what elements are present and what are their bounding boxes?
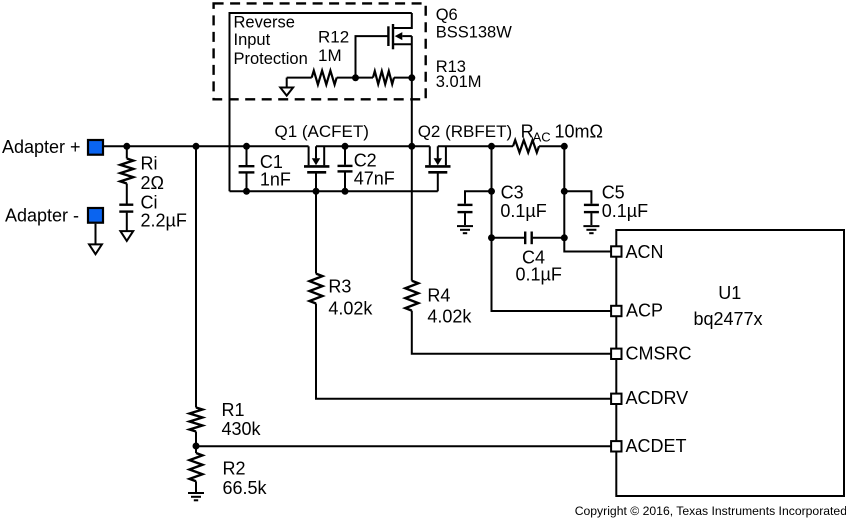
node rail-C2 <box>342 143 349 150</box>
svg-text:Q2 (RBFET): Q2 (RBFET) <box>418 122 512 141</box>
wire R4 to CMSRC pin <box>412 311 612 354</box>
transistor Q2 RBFET <box>425 146 450 191</box>
capacitor C2 <box>338 146 353 191</box>
svg-text:3.01M: 3.01M <box>436 73 482 91</box>
svg-text:66.5k: 66.5k <box>223 478 268 498</box>
svg-text:1M: 1M <box>318 46 342 65</box>
wire R2 to ground <box>195 481 197 492</box>
svg-text:0.1µF: 0.1µF <box>500 201 546 221</box>
svg-text:bq2477x: bq2477x <box>693 309 762 329</box>
wire CMSRC vertical <box>411 78 413 281</box>
capacitor C4 <box>492 232 565 245</box>
svg-text:C5: C5 <box>602 183 625 203</box>
svg-text:Adapter +: Adapter + <box>2 137 81 157</box>
svg-text:R3: R3 <box>328 277 351 297</box>
svg-text:0.1µF: 0.1µF <box>602 201 648 221</box>
Adapter- terminal <box>88 208 103 223</box>
svg-text:ACP: ACP <box>626 301 663 321</box>
wire ACDET <box>196 445 611 447</box>
capacitor C5 <box>564 191 599 225</box>
node R13-source <box>408 74 415 81</box>
node C2 bottom <box>342 188 349 195</box>
svg-text:10mΩ: 10mΩ <box>555 121 603 141</box>
resistor R3 <box>310 274 323 304</box>
wire Q6 gate lead <box>356 36 389 78</box>
svg-text:R4: R4 <box>427 285 450 305</box>
node ACP-C4 <box>488 234 495 241</box>
node rail-C1 <box>243 143 250 150</box>
capacitor Ci <box>119 205 133 231</box>
Adapter+ terminal <box>88 140 103 155</box>
resistor R13 <box>373 71 394 84</box>
svg-text:Q1 (ACFET): Q1 (ACFET) <box>275 122 369 141</box>
svg-text:CMSRC: CMSRC <box>626 343 692 363</box>
svg-text:1nF: 1nF <box>260 170 291 190</box>
wire R1 to node <box>195 432 197 454</box>
wire ACP branch vertical <box>492 146 612 311</box>
resistor Ri <box>120 146 133 203</box>
svg-text:R1: R1 <box>222 400 245 420</box>
pin ACDET <box>611 441 621 451</box>
pin ACP <box>611 306 621 316</box>
ground arrow in protection box <box>280 78 293 96</box>
wire R1 vertical <box>195 146 197 407</box>
svg-text:ACDET: ACDET <box>626 436 687 456</box>
wire top rail A <box>104 145 309 147</box>
svg-text:Input: Input <box>234 31 271 49</box>
resistor R2 <box>190 453 203 481</box>
wire RAC right <box>539 145 564 147</box>
capacitor C3 <box>458 191 492 225</box>
svg-text:2Ω: 2Ω <box>141 173 164 193</box>
svg-text:Copyright © 2016, Texas Instru: Copyright © 2016, Texas Instruments Inco… <box>575 504 846 518</box>
pin ACN <box>611 246 621 256</box>
svg-text:0.1µF: 0.1µF <box>516 264 562 284</box>
svg-text:AC: AC <box>533 130 551 145</box>
wire node to R13 <box>356 77 374 79</box>
wire R13 to source node <box>394 77 412 79</box>
node rail-R1 <box>193 143 200 150</box>
wire gnd to R12 <box>287 77 312 79</box>
wire top rail C with RAC <box>438 145 513 147</box>
dashed box Reverse Input Protection <box>214 3 426 99</box>
svg-text:C3: C3 <box>501 183 524 203</box>
ground arrow Adapter- <box>89 244 102 254</box>
pin ACDRV <box>611 394 621 404</box>
node C1 bottom <box>243 188 250 195</box>
svg-text:430k: 430k <box>222 419 262 439</box>
IC U1 bq2477x <box>616 230 844 496</box>
node ACN-C4 <box>561 234 568 241</box>
node ACN-C5 <box>561 188 568 195</box>
svg-text:ACN: ACN <box>626 242 664 262</box>
svg-text:Ri: Ri <box>141 154 158 174</box>
svg-text:BSS138W: BSS138W <box>436 24 513 42</box>
wire R12 to node <box>337 77 356 79</box>
svg-text:47nF: 47nF <box>354 169 395 189</box>
svg-text:Ci: Ci <box>141 192 158 212</box>
node R1-R2-ACDET <box>193 443 200 450</box>
svg-text:ACDRV: ACDRV <box>626 388 689 408</box>
svg-text:R2: R2 <box>223 458 246 478</box>
wire gate bottom rail <box>230 190 438 192</box>
wire Adapter- lead <box>95 224 97 245</box>
transistor Q1 ACFET <box>304 146 329 191</box>
pin CMSRC <box>611 349 621 359</box>
ground R2 <box>188 493 204 500</box>
node rail-CMSRC <box>408 143 415 150</box>
resistor R1 <box>190 408 203 432</box>
node rail-RAC-left <box>488 143 495 150</box>
svg-text:4.02k: 4.02k <box>328 298 373 318</box>
node R12-R13-gate <box>352 74 359 81</box>
transistor Q6 <box>388 13 411 78</box>
node Q1 gate-R3 <box>313 188 320 195</box>
wire top rail B <box>316 145 430 147</box>
ground arrow Ci <box>120 231 133 241</box>
wire R3 vertical <box>315 191 317 273</box>
resistor RAC <box>513 140 539 152</box>
ground C3 <box>457 226 473 233</box>
svg-text:Protection: Protection <box>234 50 308 68</box>
svg-text:Adapter -: Adapter - <box>5 206 79 226</box>
svg-text:Q6: Q6 <box>436 6 458 24</box>
wire ACN branch vertical <box>564 146 611 251</box>
wire R3 to ACDRV pin <box>316 304 611 399</box>
node adapter-Ri <box>123 143 130 150</box>
node ACP-C3 <box>488 188 495 195</box>
svg-text:2.2µF: 2.2µF <box>141 210 187 230</box>
node rail-RAC-right <box>561 143 568 150</box>
svg-text:U1: U1 <box>718 283 741 303</box>
svg-text:Reverse: Reverse <box>234 13 295 31</box>
capacitor C1 <box>239 146 255 191</box>
resistor R4 <box>405 281 418 311</box>
ground C5 <box>583 226 599 233</box>
svg-text:R12: R12 <box>318 28 349 47</box>
wire solid box top rail <box>230 13 412 191</box>
svg-text:4.02k: 4.02k <box>427 307 472 327</box>
resistor R12 <box>312 71 337 85</box>
